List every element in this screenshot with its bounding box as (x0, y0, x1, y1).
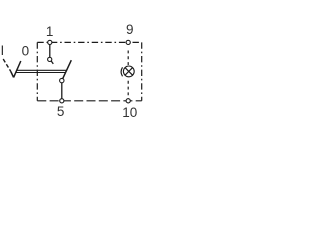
housing right border (dash-dot) (141, 42, 143, 100)
svg-text:0: 0 (22, 43, 30, 58)
svg-text:I: I (1, 43, 5, 58)
svg-text:5: 5 (57, 104, 65, 119)
movable contact lever (62, 60, 72, 80)
terminal 10 (126, 99, 130, 103)
actuator lever position I (dashed) (3, 59, 13, 77)
lever pivot node (60, 78, 64, 82)
wire terminal 9 to lamp (dashed) (127, 51, 129, 66)
housing bottom border (dashed) (37, 100, 141, 102)
terminal 9 (126, 40, 130, 44)
svg-text:9: 9 (126, 22, 134, 37)
housing top border (dash-dot) (37, 41, 141, 43)
mechanical linkage double bar (16, 70, 67, 72)
fixed contact (48, 57, 54, 64)
svg-text:1: 1 (46, 24, 54, 39)
terminal 5 (60, 99, 64, 103)
terminal 1 (48, 40, 52, 44)
lamp reflector arc (121, 67, 122, 76)
lamp L (illumination) (123, 66, 134, 77)
wire pivot to terminal 5 (61, 81, 63, 100)
wire terminal 1 to fixed contact (49, 44, 51, 59)
housing left border (dash-dot) (36, 42, 38, 100)
wire lamp to terminal 10 (dashed) (127, 81, 129, 99)
actuator lever position 0 (14, 61, 21, 77)
svg-text:10: 10 (122, 105, 137, 120)
